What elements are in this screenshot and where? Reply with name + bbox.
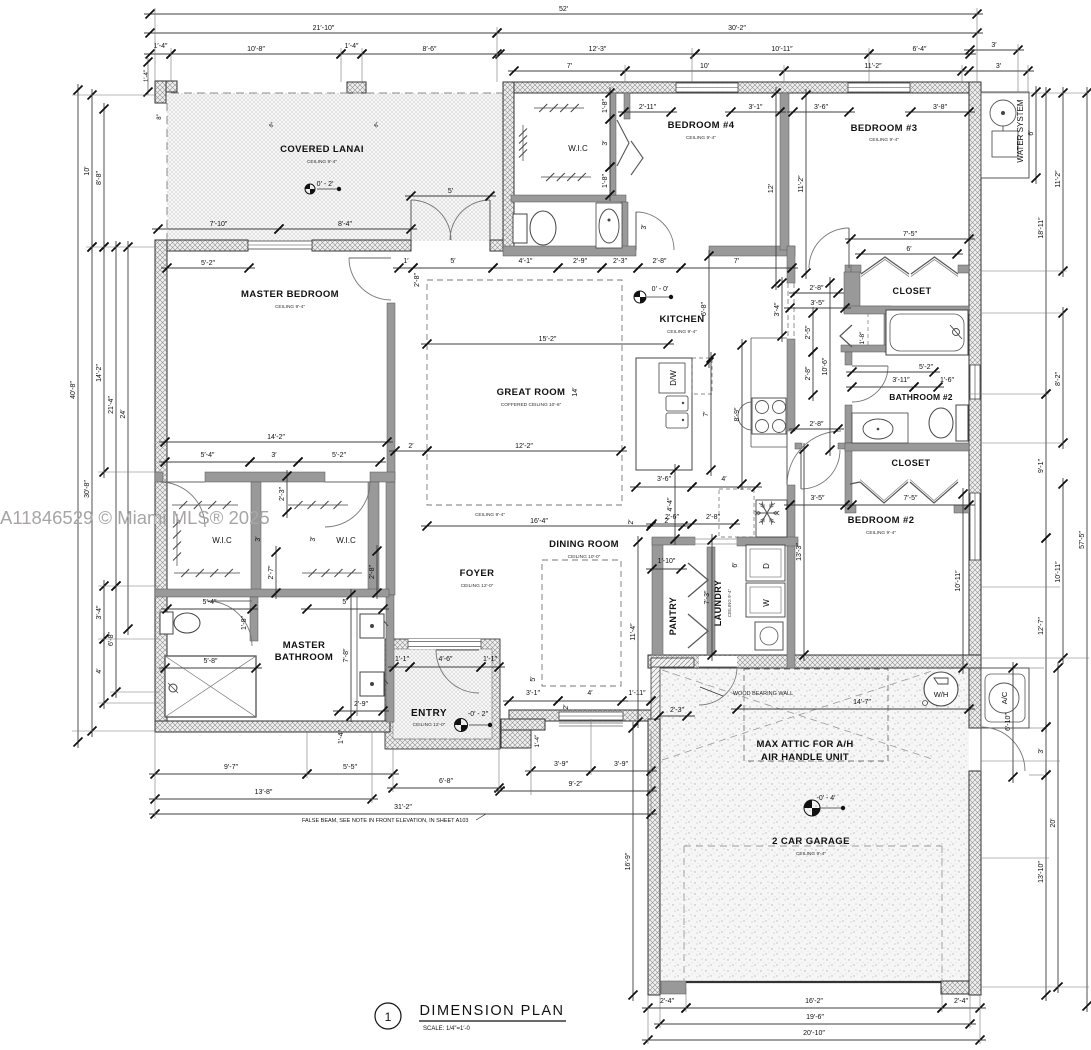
svg-text:14′-2″: 14′-2″ [267, 434, 285, 441]
svg-text:CEILING 9′-4″: CEILING 9′-4″ [275, 304, 305, 310]
svg-text:W.I.C: W.I.C [568, 144, 588, 153]
svg-text:9′-1″: 9′-1″ [1038, 459, 1045, 473]
svg-text:3′-11″: 3′-11″ [892, 377, 910, 384]
svg-text:5′-8″: 5′-8″ [204, 658, 218, 665]
svg-text:2′-11″: 2′-11″ [639, 104, 657, 111]
svg-text:SCALE: 1/4″=1′-0: SCALE: 1/4″=1′-0 [423, 1026, 470, 1032]
svg-text:6′: 6′ [1028, 130, 1035, 136]
svg-text:2′-8″: 2′-8″ [810, 285, 824, 292]
svg-text:1′-4″: 1′-4″ [338, 730, 345, 744]
svg-text:3′: 3′ [310, 536, 317, 542]
svg-text:2′: 2′ [408, 443, 414, 450]
svg-text:PANTRY: PANTRY [668, 597, 678, 635]
svg-text:CEILING 9′-4″: CEILING 9′-4″ [667, 329, 697, 335]
svg-text:1′-6″: 1′-6″ [940, 377, 954, 384]
svg-text:W.I.C: W.I.C [336, 536, 356, 545]
svg-text:14′-7″: 14′-7″ [853, 699, 871, 706]
svg-text:4′-4″: 4′-4″ [667, 497, 674, 511]
svg-text:MAX ATTIC FOR A/H: MAX ATTIC FOR A/H [756, 739, 853, 750]
svg-text:31′-2″: 31′-2″ [394, 804, 412, 811]
svg-text:2′-9″: 2′-9″ [573, 258, 587, 265]
svg-text:7′-8″: 7′-8″ [343, 648, 350, 662]
svg-text:16′-4″: 16′-4″ [530, 518, 548, 525]
svg-text:FALSE BEAM, SEE NOTE IN FRONT: FALSE BEAM, SEE NOTE IN FRONT ELEVATION,… [302, 818, 468, 824]
svg-text:10′-11″: 10′-11″ [955, 570, 962, 592]
svg-text:KITCHEN: KITCHEN [659, 314, 704, 325]
svg-text:2′-8″: 2′-8″ [805, 366, 812, 380]
svg-text:7′: 7′ [734, 258, 740, 265]
svg-text:13′-8″: 13′-8″ [255, 789, 273, 796]
svg-text:5′-5″: 5′-5″ [343, 764, 357, 771]
svg-text:CLOSET: CLOSET [892, 458, 931, 468]
svg-text:A/C: A/C [1000, 691, 1009, 704]
svg-text:15′-2″: 15′-2″ [539, 336, 557, 343]
svg-text:2′-5″: 2′-5″ [805, 325, 812, 339]
svg-text:13′-10″: 13′-10″ [1038, 861, 1045, 883]
svg-text:1′-8″: 1′-8″ [602, 174, 609, 188]
svg-text:7′: 7′ [703, 411, 710, 417]
svg-text:16′-2″: 16′-2″ [805, 998, 823, 1005]
svg-text:8′-4″: 8′-4″ [338, 221, 352, 228]
svg-text:3′-4″: 3′-4″ [774, 302, 781, 316]
svg-text:2′-6″: 2′-6″ [665, 514, 679, 521]
svg-text:6′-4″: 6′-4″ [913, 46, 927, 53]
svg-text:AIR HANDLE UNIT: AIR HANDLE UNIT [761, 752, 849, 763]
svg-text:3′-5″: 3′-5″ [811, 300, 825, 307]
svg-text:11′-2″: 11′-2″ [1055, 170, 1062, 188]
svg-text:2′-3″: 2′-3″ [279, 487, 286, 501]
svg-text:1′-4″: 1′-4″ [345, 43, 359, 50]
svg-text:1′-8″: 1′-8″ [602, 99, 609, 113]
svg-text:4′-1″: 4′-1″ [519, 258, 533, 265]
svg-text:4′-6″: 4′-6″ [439, 656, 453, 663]
svg-text:COVERED LANAI: COVERED LANAI [280, 144, 364, 155]
svg-text:CEILING 9′-4″: CEILING 9′-4″ [866, 530, 896, 536]
svg-text:2′-4″: 2′-4″ [954, 998, 968, 1005]
svg-text:CEILING 9′-4″: CEILING 9′-4″ [686, 135, 716, 141]
svg-text:10′-6″: 10′-6″ [822, 357, 829, 375]
svg-text:1′-1″: 1′-1″ [395, 656, 409, 663]
svg-text:BATHROOM #2: BATHROOM #2 [889, 392, 953, 402]
svg-text:2′-9″: 2′-9″ [354, 701, 368, 708]
svg-text:6′: 6′ [906, 246, 912, 253]
svg-text:0′ - 2′: 0′ - 2′ [317, 181, 334, 188]
svg-text:ENTRY: ENTRY [411, 708, 447, 719]
svg-text:12′-7″: 12′-7″ [1038, 617, 1045, 635]
svg-text:8′-6″: 8′-6″ [423, 46, 437, 53]
svg-text:CEILING 9′-4″: CEILING 9′-4″ [475, 512, 505, 518]
svg-text:BEDROOM #3: BEDROOM #3 [851, 123, 918, 134]
svg-text:3′: 3′ [1038, 748, 1045, 754]
svg-text:WOOD BEARING WALL: WOOD BEARING WALL [733, 691, 793, 697]
svg-text:3′-4″: 3′-4″ [96, 605, 103, 619]
svg-text:14′-2″: 14′-2″ [96, 364, 103, 382]
svg-text:1′-8″: 1′-8″ [859, 331, 866, 345]
svg-text:6′-10″: 6′-10″ [1005, 713, 1012, 731]
svg-text:5′-4″: 5′-4″ [203, 599, 217, 606]
svg-text:CEILING 9′-4″: CEILING 9′-4″ [869, 137, 899, 143]
svg-text:10′-11″: 10′-11″ [1055, 561, 1062, 583]
svg-text:WATER SYSTEM: WATER SYSTEM [1016, 99, 1025, 162]
svg-text:3′: 3′ [271, 452, 277, 459]
svg-text:0′ - 0′: 0′ - 0′ [652, 286, 669, 293]
svg-text:2′-4″: 2′-4″ [660, 998, 674, 1005]
svg-text:3′: 3′ [641, 224, 648, 230]
svg-text:2′-7″: 2′-7″ [268, 565, 275, 579]
svg-text:3′-8″: 3′-8″ [933, 104, 947, 111]
svg-text:7′-10″: 7′-10″ [210, 221, 228, 228]
svg-text:2′-8″: 2′-8″ [369, 565, 376, 579]
svg-text:8″: 8″ [157, 113, 163, 119]
svg-text:3′-6″: 3′-6″ [657, 476, 671, 483]
svg-text:3′-1″: 3′-1″ [749, 104, 763, 111]
svg-text:30′-8″: 30′-8″ [84, 480, 91, 498]
svg-text:D: D [762, 563, 771, 569]
svg-text:1′-4″: 1′-4″ [534, 734, 541, 748]
svg-text:CEILING 10′-0″: CEILING 10′-0″ [568, 554, 601, 560]
svg-text:MASTER BEDROOM: MASTER BEDROOM [241, 289, 339, 300]
svg-text:3′: 3′ [602, 140, 609, 146]
svg-text:BEDROOM #4: BEDROOM #4 [668, 120, 735, 131]
svg-text:9′-7″: 9′-7″ [224, 764, 238, 771]
svg-text:16′-9″: 16′-9″ [625, 852, 632, 870]
svg-text:1′-10″: 1′-10″ [658, 558, 676, 565]
svg-text:5′-4″: 5′-4″ [201, 452, 215, 459]
svg-text:CEILING 12′-0″: CEILING 12′-0″ [413, 722, 446, 728]
svg-text:7′: 7′ [567, 63, 573, 70]
svg-text:6′-8″: 6′-8″ [439, 778, 453, 785]
svg-text:2′-8″: 2′-8″ [810, 421, 824, 428]
svg-text:CEILING 12′-0″: CEILING 12′-0″ [461, 583, 494, 589]
svg-text:GREAT ROOM: GREAT ROOM [497, 387, 566, 398]
svg-text:A11846529 © Miami MLS® 2025: A11846529 © Miami MLS® 2025 [0, 507, 270, 528]
svg-text:40′-8″: 40′-8″ [70, 381, 77, 399]
svg-text:5′-2″: 5′-2″ [201, 260, 215, 267]
svg-text:24′: 24′ [120, 409, 127, 419]
svg-text:19′-6″: 19′-6″ [806, 1014, 824, 1021]
svg-text:21′-4″: 21′-4″ [108, 396, 115, 414]
svg-text:3′-9″: 3′-9″ [554, 761, 568, 768]
svg-text:W.I.C: W.I.C [212, 536, 232, 545]
svg-text:2′-3″: 2′-3″ [670, 707, 684, 714]
svg-text:3′: 3′ [991, 42, 997, 49]
svg-text:10′: 10′ [84, 166, 91, 176]
svg-text:1′-8″: 1′-8″ [241, 616, 248, 630]
svg-text:6′-8″: 6′-8″ [701, 302, 708, 316]
svg-text:3′: 3′ [255, 536, 262, 542]
svg-text:CEILING 9′-4″: CEILING 9′-4″ [307, 159, 337, 165]
svg-text:-0′ - 4′: -0′ - 4′ [817, 795, 837, 802]
svg-text:5′: 5′ [448, 188, 454, 195]
svg-text:3′-9″: 3′-9″ [614, 761, 628, 768]
svg-text:5′-2″: 5′-2″ [919, 364, 933, 371]
svg-text:2′-8″: 2′-8″ [706, 514, 720, 521]
svg-text:D/W: D/W [669, 370, 678, 386]
svg-text:9′-2″: 9′-2″ [569, 781, 583, 788]
svg-text:1: 1 [385, 1010, 392, 1024]
svg-text:11′-2″: 11′-2″ [864, 63, 882, 70]
svg-text:BATHROOM: BATHROOM [275, 652, 333, 663]
svg-text:20′-10″: 20′-10″ [803, 1030, 825, 1037]
svg-text:4′: 4′ [721, 476, 727, 483]
svg-text:13′-3″: 13′-3″ [796, 543, 803, 561]
svg-text:1′-4″: 1′-4″ [144, 69, 150, 82]
svg-text:2 CAR GARAGE: 2 CAR GARAGE [772, 836, 850, 847]
svg-text:18′-11″: 18′-11″ [1038, 217, 1045, 239]
svg-text:LAUNDRY: LAUNDRY [713, 580, 723, 626]
svg-text:MASTER: MASTER [283, 640, 326, 651]
svg-text:14′: 14′ [572, 387, 579, 397]
svg-text:3′: 3′ [996, 63, 1002, 70]
svg-text:3′-5″: 3′-5″ [811, 495, 825, 502]
svg-text:FOYER: FOYER [460, 568, 495, 579]
svg-text:30′-2″: 30′-2″ [728, 25, 746, 32]
svg-text:57′-5″: 57′-5″ [1079, 531, 1086, 549]
svg-text:10′: 10′ [700, 63, 710, 70]
svg-text:1′-1″: 1′-1″ [483, 656, 497, 663]
svg-text:W: W [762, 599, 771, 607]
svg-text:2′: 2′ [563, 704, 570, 710]
svg-text:COFFERED CEILING 10′-6″: COFFERED CEILING 10′-6″ [501, 402, 562, 408]
svg-text:1′: 1′ [403, 258, 409, 265]
svg-text:10′-11″: 10′-11″ [771, 46, 793, 53]
svg-text:CLOSET: CLOSET [893, 286, 932, 296]
svg-text:6′: 6′ [732, 562, 739, 568]
svg-text:21′-10″: 21′-10″ [313, 25, 335, 32]
svg-text:4′: 4′ [587, 690, 593, 697]
svg-text:CEILING 9′-4″: CEILING 9′-4″ [796, 851, 826, 857]
svg-text:DINING ROOM: DINING ROOM [549, 539, 619, 550]
svg-text:W/H: W/H [934, 690, 949, 699]
svg-text:11′-4″: 11′-4″ [630, 623, 637, 641]
svg-text:5′: 5′ [342, 599, 348, 606]
svg-text:1′-11″: 1′-11″ [628, 690, 646, 697]
svg-text:12′-2″: 12′-2″ [515, 443, 533, 450]
svg-text:8′-2″: 8′-2″ [1055, 372, 1062, 386]
svg-text:12′-3″: 12′-3″ [589, 46, 607, 53]
svg-text:20′: 20′ [1050, 818, 1057, 828]
svg-text:11′-2″: 11′-2″ [798, 175, 805, 193]
svg-text:2′-8″: 2′-8″ [414, 273, 421, 287]
svg-text:5′: 5′ [450, 258, 456, 265]
svg-text:5′-2″: 5′-2″ [332, 452, 346, 459]
svg-text:2′-8″: 2′-8″ [653, 258, 667, 265]
svg-text:BEDROOM #2: BEDROOM #2 [848, 515, 915, 526]
svg-text:8′-9″: 8′-9″ [734, 407, 741, 421]
svg-text:4′: 4′ [96, 668, 103, 674]
svg-text:2′-3″: 2′-3″ [613, 258, 627, 265]
svg-text:7′-5″: 7′-5″ [904, 495, 918, 502]
svg-text:10′-8″: 10′-8″ [247, 46, 265, 53]
svg-text:8′-8″: 8′-8″ [96, 171, 103, 185]
svg-text:1′-4″: 1′-4″ [154, 43, 168, 50]
svg-text:CEILING 9′-4″: CEILING 9′-4″ [727, 588, 732, 617]
svg-text:-0′ - 2″: -0′ - 2″ [468, 711, 489, 718]
svg-text:2′: 2′ [628, 519, 635, 525]
svg-text:52′: 52′ [559, 6, 569, 13]
svg-text:3′-6″: 3′-6″ [814, 104, 828, 111]
svg-text:3′-1″: 3′-1″ [526, 690, 540, 697]
svg-text:12′: 12′ [768, 183, 775, 193]
svg-text:DIMENSION PLAN: DIMENSION PLAN [419, 1003, 564, 1019]
svg-text:7′-5″: 7′-5″ [903, 231, 917, 238]
svg-text:7′-3″: 7′-3″ [704, 590, 711, 604]
svg-text:5′: 5′ [530, 676, 537, 682]
